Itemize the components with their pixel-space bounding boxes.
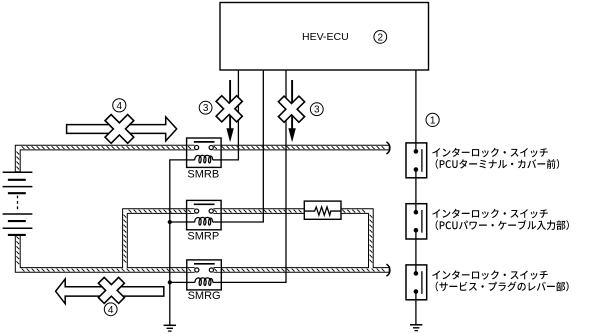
HEV-ECU box	[220, 3, 429, 71]
callout 3 left	[199, 101, 212, 114]
callout 1 (interlock switches)	[426, 113, 439, 126]
signal-cut arrow to SMRG coil	[288, 80, 295, 142]
svg-text:4: 4	[117, 101, 123, 112]
svg-text:SMRP: SMRP	[187, 231, 219, 243]
svg-text:HEV-ECU: HEV-ECU	[302, 31, 349, 43]
label interlock switch 1 line 2	[436, 159, 559, 169]
wire interlock switch 2 to 3	[415, 239, 417, 265]
callout 4 bottom	[104, 303, 117, 316]
ground (relay coils)	[164, 325, 176, 331]
battery continuation dashed line	[17, 196, 19, 212]
battery HV pack plates	[3, 172, 33, 235]
junction node at SMRP coil	[168, 220, 172, 224]
wire SMRP coil left	[170, 221, 187, 223]
svg-text:2: 2	[378, 32, 384, 43]
svg-text:3: 3	[314, 105, 320, 116]
relay SMRP	[187, 200, 222, 229]
wire thick cable: bottom bus with battery negative, precharge branch and resistor branch	[15, 209, 389, 273]
bottom bus end curl	[386, 264, 390, 276]
relay SMRG	[187, 260, 222, 290]
callout 4 top	[113, 99, 126, 112]
wire interlock switch 1 to 2	[415, 178, 417, 204]
X mark over right arrow	[271, 89, 312, 130]
svg-text:SMRB: SMRB	[187, 168, 219, 180]
wire ECU to SMRB coil	[221, 70, 238, 160]
signal-cut arrow to SMRB coil	[226, 80, 233, 142]
callout 2 (HEV-ECU)	[374, 31, 387, 44]
svg-text:SMRG: SMRG	[188, 290, 221, 302]
precharge resistor box	[304, 201, 341, 219]
wire SMRG coil left	[170, 281, 187, 283]
current flow arrow top (blocked)	[67, 117, 177, 141]
label interlock switch 2 line 1	[432, 209, 548, 219]
interlock switch 1 box	[406, 143, 427, 178]
X mark over top arrow	[97, 106, 142, 151]
top bus end curl	[386, 142, 390, 154]
ground (interlock chain)	[410, 325, 422, 331]
callout 3 right	[310, 103, 323, 116]
wire ECU to interlock switch chain	[415, 70, 417, 143]
svg-text:1: 1	[430, 115, 436, 126]
X mark over left arrow	[209, 88, 250, 129]
wire interlock switch 3 to ground	[415, 300, 417, 325]
svg-text:3: 3	[203, 103, 209, 114]
junction node at SMRG coil	[168, 280, 172, 284]
label interlock switch 3 line 1	[432, 270, 548, 280]
current flow arrow bottom (blocked)	[56, 279, 164, 304]
label interlock switch 1 line 1	[432, 148, 548, 158]
interlock switch 2 box	[406, 204, 427, 239]
wire relay coil common to ground	[170, 160, 187, 325]
relay SMRB	[187, 138, 222, 167]
wire ECU to SMRP coil	[220, 70, 263, 222]
wire ECU to SMRG coil	[221, 70, 286, 282]
interlock switch 3 box	[406, 265, 427, 300]
X mark over bottom arrow	[91, 270, 131, 310]
label interlock switch 3 line 2	[436, 282, 569, 292]
wire thick cable: battery positive to top bus	[15, 145, 389, 172]
label interlock switch 2 line 2	[436, 220, 569, 230]
svg-text:4: 4	[108, 305, 114, 316]
